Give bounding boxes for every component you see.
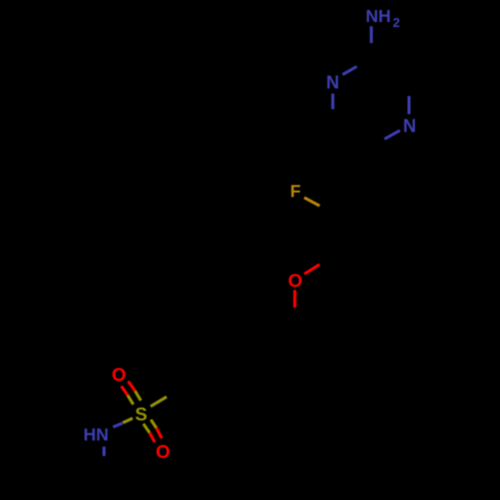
svg-text:O: O — [112, 364, 126, 385]
double bond S=O bottom line right red half — [156, 428, 161, 438]
wire bond O-C aryl — [304, 264, 319, 274]
wire bond N1-C2 — [343, 67, 357, 75]
svg-text:N: N — [403, 116, 416, 136]
double bond S=O bottom line right olive half — [151, 420, 157, 428]
amine group NH2 label — [366, 6, 400, 30]
wire bond C3-N4 — [408, 96, 411, 114]
wire bond S-N olive half — [123, 418, 133, 423]
wire bond N1-C6 — [331, 94, 334, 110]
wire bond F-C aryl — [304, 198, 319, 206]
svg-text:O: O — [288, 270, 302, 291]
svg-text:O: O — [156, 441, 170, 462]
svg-text:NH: NH — [366, 6, 391, 26]
wire bond N4-C5 — [385, 130, 401, 139]
double bond S=O bottom line left olive half — [143, 424, 149, 433]
svg-text:N: N — [326, 72, 339, 92]
svg-text:F: F — [290, 181, 301, 201]
wire bond O-CH2 — [293, 290, 296, 308]
double bond S=O top line right red half — [128, 381, 135, 391]
wire bond S-N blue half — [113, 423, 123, 427]
svg-text:HN: HN — [83, 425, 108, 445]
svg-text:S: S — [135, 403, 147, 424]
svg-text:2: 2 — [393, 15, 400, 30]
double bond S=O top line right olive half — [135, 391, 141, 401]
wire bond S-C aryl — [151, 397, 167, 407]
double bond S=O top line left olive half — [128, 395, 134, 404]
wire bond N-CH3 — [103, 447, 106, 456]
double bond S=O bottom line left red half — [150, 433, 155, 442]
wire bond NH2-C2 — [370, 26, 373, 43]
double bond S=O top line left red half — [121, 386, 127, 395]
